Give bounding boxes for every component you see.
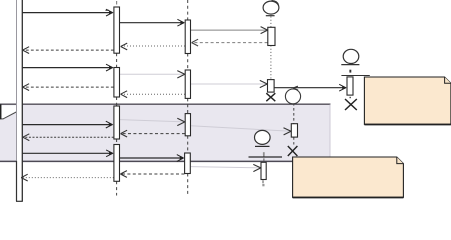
message m1 call	[22, 9, 113, 16]
lifeline L5 destruction X	[288, 146, 298, 156]
lifeline L3 activation bar 3	[185, 114, 190, 136]
message m5 return (dotted)	[121, 43, 185, 50]
lifeline L7 activation bar	[347, 77, 353, 95]
message m18 call	[22, 150, 113, 157]
lifeline L4 control icon head	[263, 1, 279, 16]
lifeline L2 activation bar 3	[114, 106, 120, 139]
lifeline L1 activation bar (left edge, full height)	[16, 0, 23, 201]
message m10 call	[274, 84, 347, 91]
lifeline L7 entity icon head	[341, 49, 359, 64]
message m3 call (thin grey)	[191, 27, 268, 34]
message m21 return	[120, 171, 184, 178]
lifeline L5 activation bar	[291, 124, 297, 137]
lifeline L6 stub above activation	[263, 154, 265, 162]
lifeline L7 dot below activation	[350, 97, 351, 98]
message m20 call (faint)	[191, 164, 261, 171]
lifeline L2 dashed line stub above	[116, 1, 118, 5]
message m12 return (dotted)	[121, 91, 185, 98]
lifeline L6 name mark	[263, 152, 265, 155]
lifeline L2 dashed segments	[116, 53, 118, 195]
lifeline L6 stub below activation	[262, 180, 264, 183]
lifeline L6 tiny label below	[262, 184, 264, 186]
message m14 call (faint)	[120, 118, 185, 125]
lifeline L2 activation bar 1	[114, 7, 120, 53]
lifeline L4 destruction X	[266, 93, 275, 101]
lifeline L3 activation bar 1	[185, 20, 190, 54]
lifeline L2 activation bar 4	[114, 145, 120, 182]
message m19 call	[120, 155, 185, 162]
lifeline L6 entity icon head	[254, 130, 270, 146]
message m8 call (faint)	[120, 71, 185, 78]
lifeline L7 name underline	[341, 75, 369, 77]
lifeline L4 activation box 2	[268, 80, 275, 93]
message m17 return	[23, 134, 114, 141]
message m2 call	[120, 19, 185, 26]
message m15 call (faint, sloped)	[191, 126, 291, 135]
lifeline L3 activation bar 4	[185, 153, 191, 174]
lifeline L4 activation box 1	[268, 27, 275, 45]
note N1 (top right)	[364, 77, 451, 125]
combined fragment frame	[0, 104, 331, 162]
message m4 return	[192, 39, 268, 46]
fragment label pentagon tab	[0, 104, 16, 119]
note N2 (bottom)	[293, 157, 404, 198]
lifeline L6 name underline	[249, 156, 283, 158]
lifeline L7 name j	[349, 70, 351, 73]
lifeline L5 control icon head	[285, 86, 300, 104]
message m7 call	[22, 64, 113, 71]
lifeline L2 activation bar 2	[114, 68, 120, 98]
lifeline L7 destruction X	[345, 99, 357, 110]
message m9 call (faint)	[191, 80, 268, 87]
message m16 return	[121, 130, 185, 137]
lifeline L6 activation bar	[261, 162, 266, 179]
lifeline L3 activation bar 2	[185, 70, 190, 98]
lifeline L4 dotted segments	[270, 17, 272, 80]
lifeline L3 dashed segments	[187, 0, 189, 195]
message m13 call	[22, 121, 113, 128]
message m11 return	[23, 84, 114, 91]
lifeline L5 dashed segment	[293, 103, 295, 145]
message m22 return (dotted)	[21, 174, 114, 181]
message m6 return	[23, 47, 114, 54]
